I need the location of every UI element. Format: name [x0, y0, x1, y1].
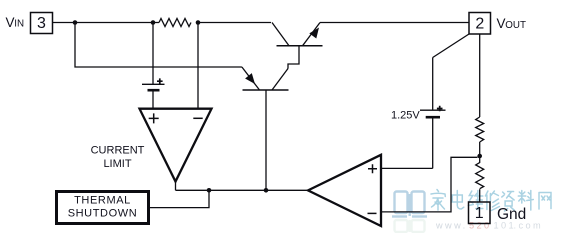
label CURRENT LIMIT: [91, 145, 145, 171]
svg-text:CURRENT: CURRENT: [91, 145, 145, 157]
wire: A1 inverting input sense line to divider tap: [381, 157, 478, 212]
wire: Q1 emitter to pin 2: [320, 22, 469, 24]
wire: U1 output to base rail: [175, 182, 177, 191]
svg-text:IN: IN: [14, 19, 24, 30]
watermark url text www.520101.com: [435, 221, 543, 231]
label VIN: [6, 15, 25, 30]
pin 1 box (Gnd terminal): [469, 202, 491, 224]
svg-text:3: 3: [37, 15, 46, 32]
svg-text:2: 2: [475, 16, 484, 33]
wire: node B down to current source B1: [152, 23, 154, 85]
char wang: [539, 193, 551, 210]
resistor R3 (bottom of divider): [476, 156, 484, 189]
char wei: [468, 191, 483, 210]
resistor R2 (top of divider): [476, 117, 484, 142]
node E (base rail / Q2 base tie): [264, 188, 269, 193]
svg-text:1: 1: [475, 205, 484, 222]
svg-text:520: 520: [469, 221, 492, 231]
thermal shutdown block U2: [57, 192, 149, 224]
reference battery B2 1.25V: [420, 58, 446, 169]
watermark text 家电维修资料网 (hand-drawn strokes): [431, 190, 551, 212]
char zi: [502, 192, 514, 212]
error amplifier A1: [308, 155, 381, 226]
svg-text:Gnd: Gnd: [497, 206, 526, 223]
node B (VIN rail / current source branch): [151, 20, 156, 25]
label VOUT: [497, 16, 526, 31]
pin 2 box (VOUT terminal): [469, 13, 491, 35]
wire: node C down to comparator U1 inverting input: [197, 23, 199, 109]
svg-text:SHUTDOWN: SHUTDOWN: [68, 208, 138, 220]
wire: R2 to divider tap: [479, 142, 481, 155]
wire: node C to Q1 collector: [198, 22, 271, 24]
svg-text:V: V: [497, 16, 506, 31]
wire: diagonal from pin 2 to reference B2: [433, 34, 469, 58]
char xiu: [485, 191, 499, 211]
comparator U1 (current limit amplifier): [140, 109, 212, 182]
wire: node D to thermal shutdown block: [149, 190, 209, 207]
char dian: [452, 191, 464, 210]
wire: base rail to error amp A1 output: [176, 189, 309, 191]
wire: A1 non-inverting input to reference B2: [381, 167, 433, 169]
watermark book reflection: [395, 220, 425, 232]
svg-text:V: V: [6, 15, 15, 30]
svg-text:www.: www.: [435, 221, 468, 231]
current source battery B1: [142, 78, 165, 90]
transistor Q2 (PNP drive transistor): [242, 67, 289, 190]
node F (divider tap): [477, 154, 482, 159]
wire: node A down and across to Q2 emitter: [75, 23, 242, 68]
resistor R1: [159, 19, 191, 27]
transistor Q1 (NPN pass transistor): [272, 23, 323, 69]
svg-text:OUT: OUT: [505, 20, 526, 31]
char liao: [518, 191, 533, 211]
svg-text:LIMIT: LIMIT: [103, 158, 131, 170]
node A (VIN rail / PNP emitter branch): [73, 20, 78, 25]
char jia: [431, 190, 445, 211]
svg-text:1.25V: 1.25V: [391, 110, 420, 122]
wire: B1 to comparator U1 non-inverting input: [152, 90, 154, 108]
node D (base rail / thermal shutdown tie): [207, 188, 212, 193]
svg-text:THERMAL: THERMAL: [74, 195, 131, 207]
wire: R3 to pin 1: [479, 189, 481, 202]
wire: VIN rail from pin 3 to resistor R1: [53, 22, 160, 24]
wire: pin 2 down to divider: [479, 34, 481, 117]
node C (R1 right / comparator inverting branch): [196, 20, 201, 25]
watermark book icon: [392, 192, 427, 217]
pin 3 box (VIN terminal): [31, 13, 53, 34]
